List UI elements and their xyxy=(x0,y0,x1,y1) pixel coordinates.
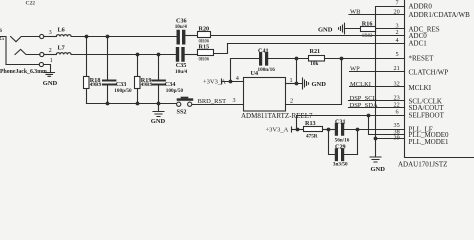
pin number 35 xyxy=(394,122,400,129)
wire selfboot to pin38 xyxy=(369,116,405,135)
pin number 7 xyxy=(396,0,399,6)
wire ADC_RES R16 to pin3 xyxy=(376,28,405,30)
pin number 2 xyxy=(49,47,52,54)
cut text C22 top edge xyxy=(26,1,36,7)
wire R13 to C31 xyxy=(323,129,335,131)
jack tip contact pin 3 xyxy=(11,37,40,42)
pin name ADC0 xyxy=(409,32,428,40)
resistor R19 xyxy=(135,77,141,89)
resistor R16 xyxy=(361,27,376,32)
svg-text:R16: R16 xyxy=(362,20,373,27)
push button SS2 xyxy=(177,102,181,106)
pin number 1 U4 xyxy=(290,77,293,84)
pin number 3 xyxy=(49,29,52,36)
svg-text:475R: 475R xyxy=(306,134,318,140)
ground U4 pin1 (sideways) xyxy=(303,78,309,89)
svg-text:1R02: 1R02 xyxy=(362,34,373,39)
wire ADDR1 pin20 xyxy=(376,14,405,16)
net label WP xyxy=(350,65,360,72)
node rail/gnd xyxy=(157,102,161,106)
svg-text:1: 1 xyxy=(50,57,53,64)
svg-text:ADDR1/CDATA/WB: ADDR1/CDATA/WB xyxy=(409,11,471,19)
node +3V3_A/C41 riser xyxy=(229,80,233,84)
wire R19 column xyxy=(137,55,139,104)
wire C35 to R15 xyxy=(185,54,198,56)
wire C31 to PLL_LF pin35 xyxy=(344,129,404,131)
pin number 5 xyxy=(396,51,399,58)
wire WB xyxy=(349,14,376,16)
svg-text:GND: GND xyxy=(318,27,333,34)
svg-text:10u/4: 10u/4 xyxy=(175,69,188,75)
node wire2/C34 xyxy=(157,53,161,57)
svg-text:100p/50: 100p/50 xyxy=(166,88,184,94)
pin number 3 xyxy=(396,23,399,30)
wire L6 to C36 xyxy=(71,36,176,38)
wire pin1 node riser xyxy=(297,59,303,84)
net label WB xyxy=(350,9,361,16)
svg-text:3n3/50: 3n3/50 xyxy=(333,162,348,168)
svg-text:100p/50: 100p/50 xyxy=(114,88,132,94)
svg-text:C22: C22 xyxy=(26,1,36,7)
node U4 pin1 gnd xyxy=(295,82,299,86)
svg-text:R20: R20 xyxy=(199,26,210,33)
svg-text:SELFBOOT: SELFBOOT xyxy=(409,112,445,120)
svg-text:21: 21 xyxy=(394,65,400,72)
wire +3V3_A to R13 xyxy=(292,129,304,131)
pin number 2 U4 xyxy=(290,97,293,104)
capacitor C36 xyxy=(178,31,184,42)
pin name CLATCH/WP xyxy=(409,69,449,77)
pin number 3 U4 xyxy=(233,97,236,104)
svg-text:32: 32 xyxy=(394,81,400,88)
svg-text:4: 4 xyxy=(236,75,239,82)
pin number 6 xyxy=(396,109,399,116)
resistor R18 xyxy=(84,77,90,89)
svg-text:+3V3_A: +3V3_A xyxy=(203,79,226,86)
ground ADC_RES (sideways) xyxy=(318,27,333,34)
svg-text:ADAU1701JSTZ: ADAU1701JSTZ xyxy=(398,161,447,169)
svg-text:22: 22 xyxy=(394,102,400,109)
wire +3V3_A to U4 pin4 xyxy=(222,81,244,83)
connector J PhoneJack_6.3mm body xyxy=(0,37,39,65)
svg-text:R15: R15 xyxy=(199,43,210,50)
svg-text:GND: GND xyxy=(43,80,58,87)
svg-text:3: 3 xyxy=(233,97,236,104)
pin number 39 xyxy=(394,134,400,141)
wire SELFBOOT riser xyxy=(297,116,405,130)
svg-text:C34: C34 xyxy=(165,81,176,88)
node wire2/R19 xyxy=(136,53,140,57)
svg-text:7: 7 xyxy=(396,0,399,6)
svg-text:ADC0: ADC0 xyxy=(409,32,428,40)
svg-text:2: 2 xyxy=(49,47,52,54)
power label +3V3_A (pll) xyxy=(266,126,289,133)
power label +3V3_A xyxy=(203,79,226,86)
wire ADDR0 pin7 step xyxy=(376,7,405,15)
node C41/U4 pin1 xyxy=(295,57,299,61)
svg-text:+3V3_A: +3V3_A xyxy=(266,126,289,133)
ground jack xyxy=(44,73,55,77)
wire L7 to C35 xyxy=(71,54,176,56)
svg-text:GND: GND xyxy=(312,81,327,88)
long vertical net xyxy=(375,15,377,158)
svg-text:SS2: SS2 xyxy=(177,109,187,116)
cut text left edge R5 xyxy=(0,36,4,42)
wire R21 to RESET pin5 xyxy=(325,58,405,60)
svg-text:ADDR0: ADDR0 xyxy=(409,3,433,11)
svg-text:MCLKI: MCLKI xyxy=(409,84,432,92)
svg-text:56n/16: 56n/16 xyxy=(335,138,350,144)
pin number 4 U4 xyxy=(236,75,239,82)
pin number 20 xyxy=(394,8,400,15)
pin name ADDR1/CDATA/WB xyxy=(409,11,471,19)
svg-text:49R9: 49R9 xyxy=(90,82,102,88)
pin name *RESET xyxy=(409,54,435,62)
svg-text:PhoneJack_6.3mm: PhoneJack_6.3mm xyxy=(0,69,47,75)
svg-text:R21: R21 xyxy=(310,48,321,55)
wire C29 branch left riser xyxy=(329,130,335,155)
capacitor C41 xyxy=(261,54,267,64)
wire jack pin1 to gnd xyxy=(44,65,51,73)
wire C41 to R21 xyxy=(268,58,308,60)
pin name SELFBOOT xyxy=(409,112,445,120)
net label DSP_SCL xyxy=(350,95,377,102)
node C31/C29 join xyxy=(356,128,360,132)
cut text left edge 6 xyxy=(0,28,2,34)
pin number 23 xyxy=(394,95,400,102)
jack pin 1 circle xyxy=(39,62,43,66)
node SELFBOOT/PLL_MODE0 xyxy=(367,114,371,118)
wire R18 column xyxy=(86,37,88,104)
node pin39/gnd vertical xyxy=(374,137,378,141)
pin number 1 xyxy=(50,57,53,64)
net label DSP_SDA xyxy=(350,102,378,109)
wire C33 column xyxy=(107,37,109,104)
wire ADC1 net R15 to pin4 xyxy=(214,44,405,54)
wire WP to pin21 xyxy=(350,71,405,73)
wire MCLKI to pin32 xyxy=(350,86,405,88)
node R21/U4 pin2 riser xyxy=(340,57,344,61)
svg-text:L7: L7 xyxy=(58,45,65,52)
gnd rail wire xyxy=(87,103,177,105)
pin number 4 xyxy=(396,37,399,44)
pin number 21 xyxy=(394,65,400,72)
svg-text:C29: C29 xyxy=(335,144,346,151)
pin number 2 xyxy=(396,29,399,36)
capacitor C29 xyxy=(336,150,342,160)
node wire1/R18 xyxy=(85,35,89,39)
resistor R20 xyxy=(198,32,211,38)
svg-text:20: 20 xyxy=(394,8,400,15)
wire U4 pin1 xyxy=(286,83,297,85)
svg-text:*RESET: *RESET xyxy=(409,54,435,62)
svg-text:C35: C35 xyxy=(176,62,187,69)
pin name ADC1 xyxy=(409,40,428,48)
pin name SCL/CCLK xyxy=(409,97,442,105)
svg-text:10k: 10k xyxy=(310,61,318,67)
svg-text:C31: C31 xyxy=(335,119,346,126)
IC U ADAU1701 box edge xyxy=(405,0,474,158)
wire C34 column xyxy=(158,55,160,104)
node rail/R19 xyxy=(136,102,140,106)
svg-text:6: 6 xyxy=(396,109,399,116)
pin name PLL_LF xyxy=(409,125,433,133)
wire BRD_RST xyxy=(192,104,244,106)
pin number 38 xyxy=(394,128,400,135)
net label BRD_RST xyxy=(198,98,227,105)
wire ADC0 net R20 to pin2 xyxy=(211,35,405,37)
IC U4 box ADM811 xyxy=(244,78,286,112)
svg-text:.6: .6 xyxy=(0,28,2,34)
svg-text:100n/16: 100n/16 xyxy=(258,67,276,73)
svg-text:ADC1: ADC1 xyxy=(409,40,428,48)
svg-text:4: 4 xyxy=(396,37,399,44)
node R13/C29 branch xyxy=(327,128,331,132)
wire pin3 to L6 xyxy=(44,36,57,38)
jack label PhoneJack_6.3mm xyxy=(0,69,47,75)
jack ring contact pin 2 xyxy=(15,49,40,54)
wire gnd to R16 xyxy=(345,28,361,30)
pin name ADC_RES xyxy=(409,25,440,33)
node pll supply xyxy=(296,128,300,132)
svg-text:L6: L6 xyxy=(58,27,65,34)
jack pin 3 circle xyxy=(40,34,44,38)
svg-text:C33: C33 xyxy=(116,81,127,88)
svg-text:49R9: 49R9 xyxy=(141,82,153,88)
jack pin 2 circle xyxy=(40,52,44,56)
capacitor C34 xyxy=(153,81,165,85)
wire DSP_SCL to pin23 xyxy=(349,100,405,102)
svg-text:PLL_MODE1: PLL_MODE1 xyxy=(409,138,450,146)
wire DSP_SDA to pin22 xyxy=(349,107,405,109)
node wire1/C33 xyxy=(106,35,110,39)
wire PLL_MODE1 pin39 xyxy=(376,138,405,140)
capacitor C31 xyxy=(336,125,342,135)
svg-text:0R06: 0R06 xyxy=(199,58,210,63)
wire pin2 to L7 xyxy=(44,54,56,56)
resistor R15 xyxy=(198,50,214,56)
capacitor C35 xyxy=(178,49,184,60)
svg-text:R13: R13 xyxy=(305,120,316,127)
inductor L7 xyxy=(56,53,71,55)
net label MCLKI xyxy=(350,81,371,88)
wire C29 to join riser xyxy=(344,130,357,155)
pin name PLL_MODE0 xyxy=(409,131,450,139)
wire riser to C41 xyxy=(231,59,260,82)
svg-text:10u/4: 10u/4 xyxy=(175,24,188,30)
wire U4 pin2 to riser xyxy=(286,59,342,105)
capacitor C33 xyxy=(103,81,115,85)
svg-text:2: 2 xyxy=(290,97,293,104)
pin name SDA/COUT xyxy=(409,104,445,112)
ground rail xyxy=(153,104,164,117)
svg-text:1: 1 xyxy=(290,77,293,84)
svg-text:2: 2 xyxy=(396,29,399,36)
pin number 22 xyxy=(394,102,400,109)
svg-text:GND: GND xyxy=(151,118,166,125)
svg-text:39: 39 xyxy=(394,134,400,141)
wire C36 to R20 xyxy=(185,35,197,37)
pin name ADDR0 xyxy=(409,3,433,11)
svg-text:5: 5 xyxy=(396,51,399,58)
svg-text:GND: GND xyxy=(371,166,386,173)
node rail/C33 xyxy=(106,102,110,106)
svg-text:C41: C41 xyxy=(258,48,269,55)
inductor L6 xyxy=(56,35,71,37)
svg-text:CLATCH/WP: CLATCH/WP xyxy=(409,69,449,77)
svg-text:3: 3 xyxy=(49,29,52,36)
resistor R13 xyxy=(304,127,323,132)
pin name PLL_MODE1 xyxy=(409,138,450,146)
pin number 32 xyxy=(394,81,400,88)
ground bottom right xyxy=(370,157,381,162)
resistor R21 xyxy=(309,56,325,62)
pin name MCLKI xyxy=(409,84,432,92)
